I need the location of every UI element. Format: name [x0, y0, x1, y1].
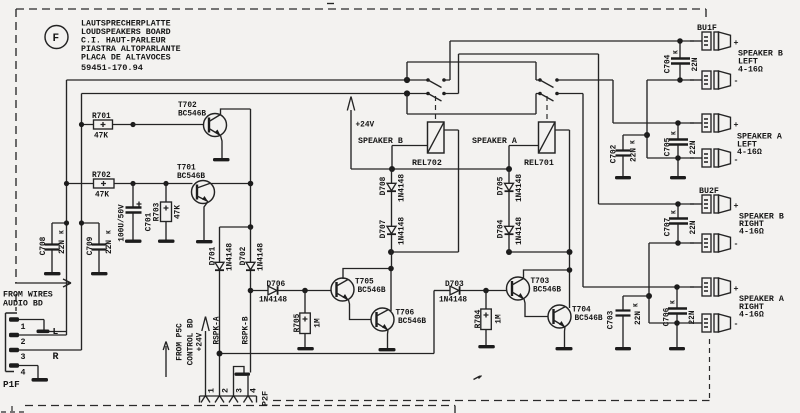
- svg-text:FROM P5C: FROM P5C: [176, 323, 184, 361]
- svg-text:C709: C709: [87, 236, 95, 255]
- pad: pin 4 link: [32, 378, 49, 382]
- capacitor C709: [82, 223, 114, 272]
- capacitor C701 (electrolytic 100U/50V): [118, 184, 153, 242]
- node: C705 top: [675, 120, 681, 126]
- wire: REL702 coil pin2 loop to chain bottom: [391, 130, 459, 252]
- ground: C703: [615, 347, 631, 350]
- title text block: [81, 20, 181, 74]
- ground: C702: [615, 176, 631, 179]
- svg-text:REL701: REL701: [524, 159, 554, 168]
- svg-text:22N: 22N: [630, 148, 638, 162]
- svg-text:1N4148: 1N4148: [226, 243, 234, 271]
- wire: REL702 coil pin1 to +24V rail: [392, 146, 428, 170]
- svg-text:47K: 47K: [174, 205, 182, 219]
- node: R702 left junction: [64, 181, 69, 186]
- svg-text:1N4148: 1N4148: [398, 174, 406, 202]
- svg-text:22N: 22N: [635, 311, 643, 325]
- connector BU1F speaker A left minus: [690, 149, 738, 167]
- svg-text:T704: T704: [572, 307, 591, 315]
- svg-text:K: K: [629, 140, 636, 144]
- dashed lead below BU2F minus: [709, 339, 711, 400]
- svg-text:3: 3: [21, 353, 26, 362]
- node: T705/T706 collector junction: [388, 266, 394, 272]
- svg-text:T705: T705: [355, 279, 374, 287]
- svg-text:1: 1: [207, 388, 216, 393]
- transistor T705: [331, 278, 386, 301]
- svg-text:+24V: +24V: [196, 332, 204, 351]
- wire: speaker B right minus return riser: [649, 243, 694, 323]
- diode D708: [380, 169, 407, 202]
- capacitor C705: [664, 123, 698, 176]
- svg-text:4: 4: [21, 369, 26, 378]
- wire: L-feed top horizontal to REL702 upper pole: [67, 79, 429, 81]
- relay contact REL702 upper: [426, 78, 446, 87]
- node: V3 at D701/D702 branch: [248, 224, 254, 230]
- svg-text:C702: C702: [610, 144, 618, 163]
- wire: link pad to L riser: [50, 331, 67, 333]
- svg-text:D706: D706: [267, 281, 286, 289]
- svg-text:22N: 22N: [690, 140, 698, 154]
- wire: R feed jog to REL701 lower pole: [407, 94, 540, 115]
- node: C709 branch junction: [79, 220, 84, 225]
- node: C705 bottom: [675, 155, 681, 161]
- connector P1F: [3, 313, 26, 390]
- wire: riser down to BU2F plus: [599, 54, 695, 204]
- svg-text:RSPK-B: RSPK-B: [242, 316, 250, 344]
- relay REL701 coil: [524, 96, 555, 168]
- pad: P2F link bar: [235, 373, 251, 376]
- relay contact REL701 upper: [538, 78, 559, 87]
- wire: V3 collector bus vertical (T702/T701 collectors to D702): [250, 109, 252, 227]
- svg-text:K: K: [105, 230, 112, 234]
- wire: speaker B left minus return riser: [647, 80, 694, 158]
- svg-text:1N4148: 1N4148: [516, 217, 524, 245]
- wire: P1F pin 4 to link pad: [19, 366, 38, 379]
- svg-text:-: -: [734, 320, 739, 329]
- svg-text:D703: D703: [445, 281, 464, 289]
- capacitor C703: [607, 296, 649, 347]
- svg-text:BC546B: BC546B: [178, 111, 206, 119]
- wire: T701 emitter to ground: [204, 202, 208, 241]
- svg-text:+24V: +24V: [356, 122, 375, 130]
- wire: REL701 coil pin1 to +24V rail: [509, 146, 539, 170]
- svg-text:BC546B: BC546B: [398, 318, 426, 326]
- wire: REL701 upper contact jog down to speaker A left plus: [557, 80, 694, 123]
- capacitor C706: [663, 287, 697, 347]
- connector BU2F speaker A right plus: [690, 278, 739, 296]
- wire: T706 emitter to ground: [387, 330, 390, 348]
- wire: T704 collector to node: [569, 270, 571, 308]
- ground: C701: [125, 240, 142, 243]
- svg-text:2: 2: [221, 388, 230, 393]
- svg-text:2: 2: [21, 338, 26, 347]
- transistor T702: [178, 102, 227, 137]
- ground: C709: [91, 272, 108, 275]
- node: R704 top junction: [483, 288, 489, 294]
- label: speaker B right: [739, 213, 784, 237]
- svg-text:K: K: [672, 50, 679, 54]
- svg-text:D707: D707: [380, 219, 388, 238]
- svg-text:K: K: [670, 210, 677, 214]
- svg-text:PLACA DE ALTAVOCES: PLACA DE ALTAVOCES: [81, 54, 171, 63]
- svg-text:BC546B: BC546B: [177, 173, 205, 181]
- wire: R702 to T701 base: [133, 183, 193, 185]
- node: C701 top junction: [130, 181, 135, 186]
- svg-text:BC546B: BC546B: [358, 287, 386, 295]
- wire: P1F pin 1 to link pad L: [19, 320, 44, 330]
- node: V3 at T701 collector: [248, 181, 254, 187]
- connector BU2F speaker B right plus: [690, 195, 739, 213]
- svg-text:4-16Ω: 4-16Ω: [739, 311, 764, 320]
- diode D702: [240, 227, 266, 271]
- svg-text:47K: 47K: [94, 133, 108, 141]
- svg-text:+: +: [734, 121, 739, 130]
- wire: P1F pin 3 to R riser: [19, 349, 82, 351]
- svg-text:1N4148: 1N4148: [516, 174, 524, 202]
- svg-text:+: +: [734, 39, 739, 48]
- resistor R705: [294, 291, 323, 348]
- svg-text:22N: 22N: [106, 240, 114, 254]
- node: REL702 lower switch pole: [404, 90, 410, 96]
- svg-text:C703: C703: [607, 310, 615, 329]
- board outline dashed frame: top-right corner stub: [705, 9, 707, 18]
- svg-text:FROM WIRES: FROM WIRES: [3, 291, 53, 300]
- svg-text:R701: R701: [92, 113, 111, 121]
- label: speaker A left: [737, 133, 782, 158]
- arrow: from wires audio board: [15, 279, 71, 287]
- node: C707 top: [675, 201, 681, 207]
- node: D702 / D706 row junction: [248, 288, 254, 294]
- wire: L feed jog to REL701 upper pole: [407, 62, 540, 80]
- node: C704 top: [677, 38, 683, 44]
- wire: T703 emitter to T704 base: [524, 299, 548, 317]
- svg-text:AUDIO BD: AUDIO BD: [3, 300, 43, 309]
- svg-text:+: +: [734, 285, 739, 294]
- svg-text:CONTROL BD: CONTROL BD: [187, 318, 195, 365]
- svg-text:RSPK-A: RSPK-A: [213, 316, 221, 344]
- ground: C705 return: [670, 176, 686, 179]
- svg-text:C704: C704: [664, 54, 672, 73]
- svg-text:SPEAKER A: SPEAKER A: [472, 137, 517, 146]
- wire: T703 collector to node: [524, 270, 570, 278]
- svg-text:100U/50V: 100U/50V: [118, 204, 126, 242]
- svg-text:-: -: [734, 156, 739, 165]
- capacitor C708: [40, 223, 67, 272]
- resistor R702: [67, 172, 134, 200]
- svg-text:R705: R705: [294, 313, 302, 332]
- ground: R703: [158, 240, 175, 243]
- svg-text:3: 3: [235, 388, 244, 393]
- svg-text:+: +: [734, 202, 739, 211]
- wire: P2F pin3 step link to RSPK-B: [234, 367, 245, 398]
- svg-text:K: K: [58, 230, 65, 234]
- wire: REL701 lower contact riser to speaker A right plus: [557, 94, 694, 288]
- capacitor C704: [664, 41, 700, 80]
- ground: T704 emitter: [556, 347, 573, 350]
- ground: R705: [297, 347, 314, 350]
- transistor T704: [548, 305, 603, 328]
- node: RSPK-A branch junction: [217, 351, 223, 357]
- svg-text:REL702: REL702: [412, 159, 442, 168]
- svg-text:22N: 22N: [692, 57, 700, 71]
- pad: wire link L: [37, 330, 50, 334]
- svg-text:T701: T701: [177, 165, 196, 173]
- connector BU1F speaker A left plus: [690, 114, 739, 132]
- wire: T705 collector to node: [343, 269, 391, 280]
- node: REL702 upper switch pole: [404, 77, 410, 83]
- connector BU2F speaker A right minus: [690, 314, 738, 332]
- svg-text:4-16Ω: 4-16Ω: [739, 228, 764, 237]
- svg-text:K: K: [669, 300, 676, 304]
- node: C706 bottom: [674, 320, 680, 326]
- node: R701 left junction: [79, 122, 84, 127]
- svg-text:T702: T702: [178, 102, 197, 110]
- svg-text:D702: D702: [240, 246, 248, 265]
- svg-text:1N4148: 1N4148: [259, 297, 287, 305]
- node: C708 branch junction: [64, 220, 69, 225]
- svg-text:T706: T706: [396, 310, 415, 318]
- diode D705: [497, 169, 524, 202]
- svg-text:22N: 22N: [690, 220, 698, 234]
- node: R705 top junction: [302, 288, 308, 294]
- connector BU2F speaker B right minus: [690, 234, 738, 252]
- svg-text:-: -: [734, 240, 739, 249]
- node: D707 chain bottom junction: [388, 249, 394, 255]
- wire: T702 emitter to ground: [221, 136, 223, 159]
- svg-text:1N4148: 1N4148: [398, 217, 406, 245]
- relay contact REL702 lower: [426, 92, 446, 101]
- wire: R701 to T702 base: [133, 124, 204, 126]
- svg-text:R702: R702: [92, 172, 111, 180]
- wire: D701 cathode down to RSPK-A node: [219, 271, 221, 397]
- wire: P2F pin4 to link bar: [247, 376, 249, 397]
- wire: T701 collector to V3 vertical: [210, 183, 251, 185]
- page edge dashed fragments bottom-left: [1, 406, 28, 413]
- diode D703: [434, 281, 507, 305]
- svg-text:59451-170.94: 59451-170.94: [81, 63, 143, 73]
- svg-text:C707: C707: [664, 217, 672, 236]
- wire: T705 emitter to T706 base: [349, 300, 372, 320]
- svg-text:D708: D708: [380, 176, 388, 195]
- resistor R703: [153, 184, 182, 240]
- wire: branch to D701: [220, 227, 251, 262]
- svg-text:1N4148: 1N4148: [257, 243, 265, 271]
- svg-text:4: 4: [249, 388, 258, 393]
- wire: REL702 upper contact to BU1F plus: [444, 41, 694, 80]
- transistor T701: [177, 165, 215, 204]
- board outline dashed frame: bottom edge left: [25, 406, 455, 413]
- diode D704: [497, 192, 524, 252]
- diode D701: [209, 243, 234, 271]
- wire: R-feed second horizontal to REL702 lower pole: [82, 93, 429, 95]
- arrow: +24V supply to relay rail: [347, 97, 374, 170]
- node: D704 chain bottom junction: [506, 249, 512, 255]
- wire: REL701 coil pin2 loop to chain bottom: [509, 130, 570, 270]
- board outline dashed frame: top edge: [16, 8, 706, 10]
- svg-text:1: 1: [21, 323, 26, 332]
- svg-text:1M: 1M: [314, 318, 322, 328]
- svg-text:22N: 22N: [59, 240, 67, 254]
- resistor R704: [475, 291, 504, 346]
- wire: P2F pin1 +24V stub with arrow: [196, 317, 209, 398]
- svg-text:SPEAKER B: SPEAKER B: [358, 137, 403, 146]
- svg-text:T703: T703: [531, 278, 550, 286]
- svg-text:1N4148: 1N4148: [439, 297, 467, 305]
- svg-text:BC546B: BC546B: [575, 315, 603, 323]
- node: C707 bottom: [675, 240, 681, 246]
- stray pen mark: [474, 376, 482, 380]
- wire: D702 cathode down RSPK-B to P2F link: [250, 271, 252, 373]
- svg-text:F: F: [53, 33, 60, 45]
- diode D707: [380, 192, 407, 269]
- svg-text:C701: C701: [145, 212, 153, 231]
- node: rail / D705 / coil junction: [506, 166, 512, 172]
- diode D706: [251, 281, 332, 305]
- node: C702 branch junction: [644, 132, 650, 138]
- wire: T706 collector to node: [390, 269, 392, 312]
- registration tick above top border: [327, 3, 334, 5]
- wire: RSPK-A long horizontal to D703 riser: [220, 291, 435, 354]
- wire: T704 emitter to ground: [564, 327, 567, 347]
- svg-text:R703: R703: [153, 202, 161, 221]
- ground: T702 emitter: [213, 158, 230, 161]
- ground: R704: [478, 345, 495, 348]
- resistor R701: [82, 113, 134, 141]
- svg-text:BC546B: BC546B: [533, 287, 561, 295]
- wire: P1F pin 2 to L riser: [19, 334, 67, 336]
- node: C704 bottom: [677, 77, 683, 83]
- board outline dashed frame: left edge: [15, 9, 17, 311]
- relay contact REL701 lower: [538, 92, 559, 101]
- connector P2F: [200, 388, 271, 406]
- capacitor C702: [610, 135, 647, 176]
- ground: T701 emitter: [196, 240, 213, 243]
- node: rail / D708 / coil junction: [389, 166, 395, 172]
- connector BU1F speaker B left plus: [690, 32, 739, 50]
- wire: REL702 lower contact riser: [444, 54, 599, 94]
- node: T703/T704 collector junction: [567, 267, 573, 273]
- wire: left vertical riser L channel (to P1F pin 2): [66, 80, 68, 335]
- node: R701 right / C701 branch junction: [130, 122, 135, 127]
- connector BU1F speaker B left minus: [690, 71, 738, 89]
- wire: +24V rail to relay coils: [351, 168, 509, 170]
- svg-text:D705: D705: [497, 176, 505, 195]
- svg-text:C706: C706: [663, 307, 671, 326]
- relay REL702 coil: [412, 96, 444, 168]
- node: C706 top: [674, 284, 680, 290]
- svg-text:P1F: P1F: [3, 379, 20, 390]
- svg-text:R704: R704: [475, 309, 483, 328]
- svg-text:4-16Ω: 4-16Ω: [738, 66, 763, 75]
- node: R703 top junction: [163, 181, 168, 186]
- svg-text:P2F: P2F: [260, 391, 270, 406]
- svg-text:K: K: [632, 303, 639, 307]
- svg-text:K: K: [670, 131, 677, 135]
- arrow: from P5C control board: [163, 318, 195, 377]
- wire: left vertical riser R channel (to P1F pin 3): [81, 94, 83, 351]
- label: FROM WIRES AUDIO BD: [3, 291, 53, 309]
- transistor T703: [507, 277, 562, 300]
- label: speaker A right: [739, 295, 784, 320]
- board identifier circle F: [45, 26, 68, 49]
- node: riser at chain bottom: [567, 249, 573, 255]
- svg-text:D704: D704: [497, 219, 505, 238]
- svg-text:1M: 1M: [495, 314, 503, 324]
- ground: T706 emitter: [379, 348, 396, 351]
- ground: C708: [44, 272, 61, 275]
- svg-text:R: R: [53, 352, 59, 363]
- board outline dashed frame: bottom edge right of P2F: [273, 400, 710, 402]
- svg-text:D701: D701: [209, 246, 217, 265]
- capacitor C707: [664, 204, 698, 243]
- svg-text:47K: 47K: [95, 192, 109, 200]
- transistor T706: [371, 308, 426, 331]
- svg-text:-: -: [734, 77, 739, 86]
- ground: C706: [669, 347, 685, 350]
- svg-text:C705: C705: [664, 137, 672, 156]
- wire: T702 collector to V3 vertical: [221, 109, 251, 115]
- node: C703 branch junction: [646, 293, 652, 299]
- svg-text:4-16Ω: 4-16Ω: [737, 148, 762, 157]
- svg-text:C708: C708: [40, 236, 48, 255]
- label: speaker B left: [738, 50, 783, 75]
